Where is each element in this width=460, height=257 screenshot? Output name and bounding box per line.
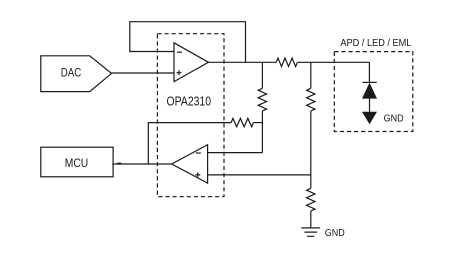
MCU block [41, 147, 113, 177]
U1B minus sign [196, 152, 201, 154]
resistor R4 (vertical, to ground) [307, 188, 315, 211]
U1A plus sign [177, 70, 182, 75]
svg-text:DAC: DAC [61, 68, 82, 80]
svg-text:GND: GND [325, 227, 345, 239]
U1B plus sign [195, 172, 200, 177]
resistor R3 (vertical) [307, 88, 315, 111]
ground (earth) [301, 228, 320, 236]
wire U1B minus input [208, 152, 263, 154]
op-amp U1A [174, 43, 209, 82]
OPA2310 dashed box [157, 34, 224, 197]
wire R3 down to R4 [310, 111, 312, 188]
wire U1A output node [209, 61, 277, 63]
wire R5 to node B [253, 122, 262, 124]
op-amp U1B [172, 145, 208, 183]
wire R2 to node B and U1B minus [261, 111, 263, 153]
wire diode anode [369, 99, 371, 112]
resistor R1 (series, horizontal) [276, 58, 297, 66]
wire DAC to op-amp U1A + input [112, 72, 175, 74]
wire node C down [310, 62, 312, 88]
wire R4 to ground [310, 211, 312, 227]
svg-text:GND: GND [384, 113, 404, 125]
svg-text:OPA2310: OPA2310 [167, 95, 212, 109]
wire U1A feedback loop [130, 22, 246, 63]
wire into diode [368, 62, 370, 82]
wire U1B feedback up [148, 123, 231, 164]
photodiode D1 cathode bar [363, 81, 377, 83]
DAC block [41, 56, 112, 92]
APD / LED / EML dashed box [334, 52, 413, 132]
svg-text:MCU: MCU [65, 158, 89, 170]
wire MCU to U1B output [112, 163, 171, 165]
junction nub on MCU wire [117, 163, 121, 165]
ground (triangle) in APD box [362, 112, 377, 125]
resistor R2 (vertical) [258, 88, 266, 111]
photodiode D1 triangle [362, 83, 377, 99]
U1A minus sign [177, 51, 182, 53]
wire U1B plus input [208, 174, 311, 176]
resistor R5 (feedback, horizontal) [231, 118, 253, 126]
svg-text:APD / LED / EML: APD / LED / EML [340, 37, 411, 49]
wire R1 to APD box [297, 61, 369, 63]
wire node A down [261, 62, 263, 88]
